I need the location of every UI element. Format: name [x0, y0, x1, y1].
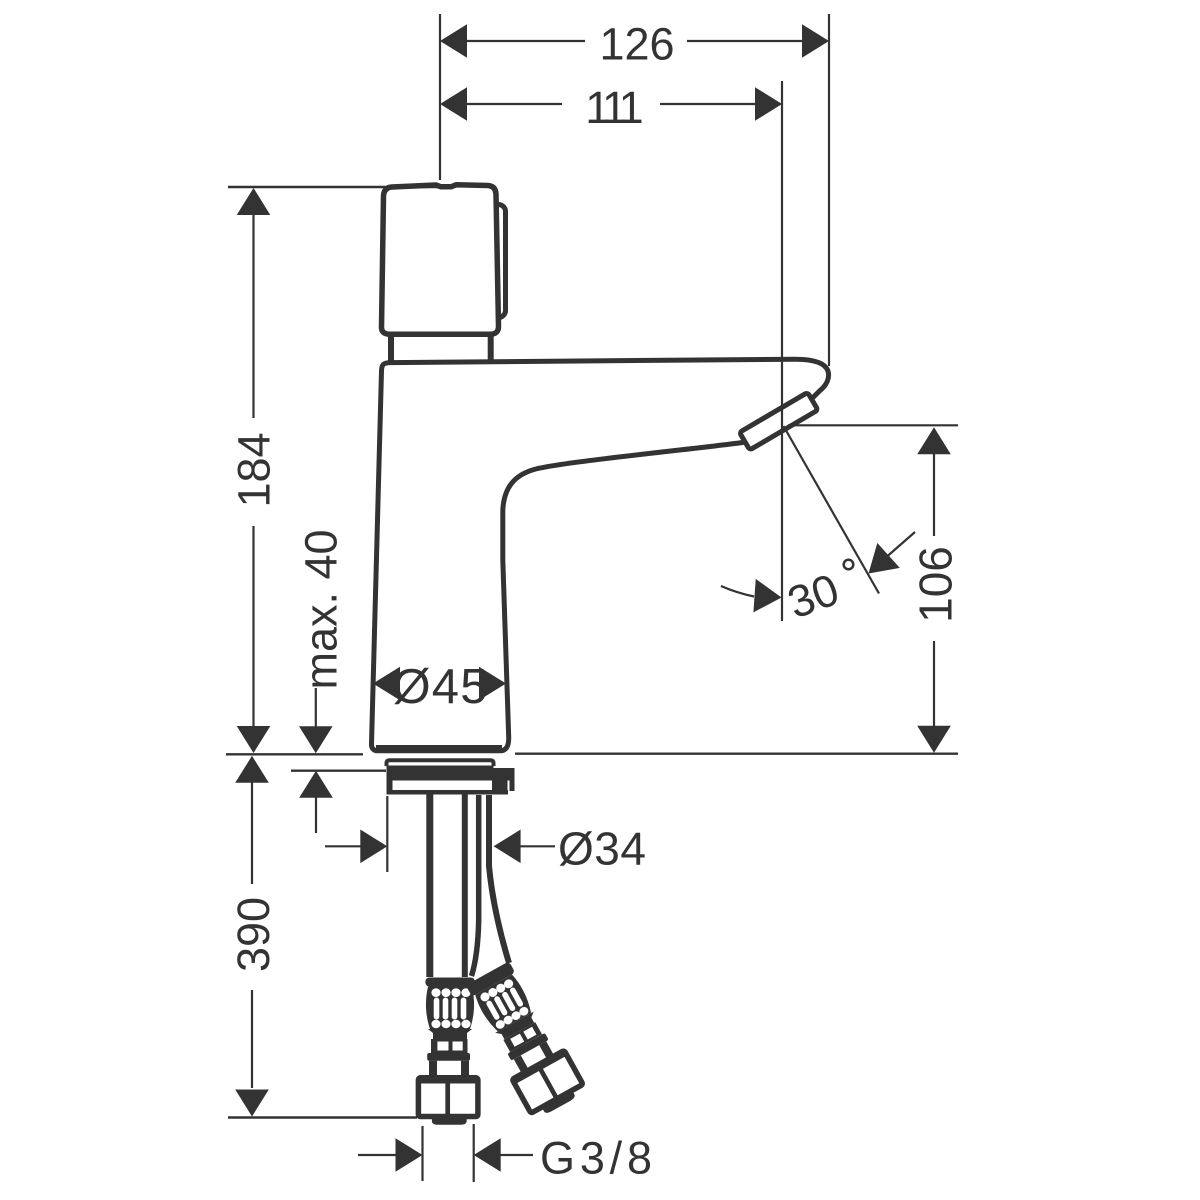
right hose crimp — [466, 961, 516, 996]
dimension G3/8 — [358, 1124, 533, 1182]
right hose end cap — [542, 1092, 576, 1115]
dimension Ø34 — [325, 796, 555, 872]
dimension 390 — [251, 781, 253, 1088]
escutcheon main band — [387, 766, 494, 781]
left hose gap walls — [433, 1061, 465, 1076]
right hose ferrule — [507, 1033, 548, 1061]
deck lines — [226, 754, 958, 1118]
svg-text:Ø45: Ø45 — [393, 660, 488, 714]
right hose vertical part — [472, 795, 510, 976]
escutcheon washer — [387, 760, 494, 766]
right hose gap walls — [517, 1043, 550, 1070]
escutcheon lower box — [387, 780, 393, 795]
left hose waist — [428, 1029, 472, 1039]
faucet body and spout — [371, 359, 828, 751]
right hose waist — [495, 1012, 538, 1042]
faucet handle collar — [391, 330, 491, 362]
select button tab — [486, 205, 506, 318]
left hose window band — [431, 1039, 468, 1053]
right hose window band — [503, 1022, 542, 1052]
aerator — [739, 392, 817, 450]
dimension 106 — [788, 425, 958, 727]
dimension 111 — [464, 81, 782, 621]
dimension 30 degrees — [721, 426, 915, 597]
left hose cap — [432, 1118, 467, 1125]
right hose nut G3/8 — [512, 1050, 583, 1113]
body bottom thick edge — [376, 745, 502, 751]
left hose ferrule — [427, 1053, 470, 1061]
left hose braid 1 — [426, 987, 474, 1030]
right hose diagonal part — [461, 959, 587, 1121]
dimension Ø45 — [373, 667, 400, 701]
svg-text:Ø34: Ø34 — [558, 823, 646, 875]
svg-text:184: 184 — [229, 432, 280, 507]
left hose tube — [430, 794, 465, 977]
dimension max. 40 — [315, 688, 317, 833]
degree symbol ring — [844, 560, 854, 570]
svg-text:106: 106 — [910, 546, 962, 623]
handle head — [381, 185, 498, 334]
svg-text:max. 40: max. 40 — [296, 529, 347, 689]
svg-text:126: 126 — [599, 19, 674, 70]
left hose nut — [418, 1078, 478, 1117]
svg-text:G3/8: G3/8 — [540, 1133, 652, 1184]
right hose braid 1 — [473, 973, 534, 1033]
svg-text:111: 111 — [585, 82, 641, 133]
dimension 126 — [440, 14, 829, 366]
dimension 184 — [228, 186, 437, 189]
svg-text:390: 390 — [228, 897, 279, 972]
left hose crimp — [425, 978, 474, 987]
